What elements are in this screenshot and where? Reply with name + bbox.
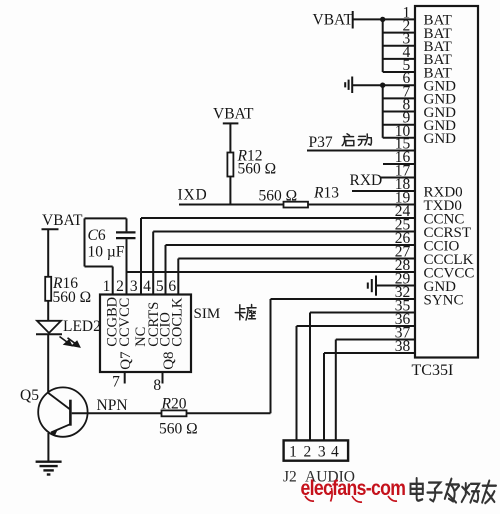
svg-text:NPN: NPN bbox=[97, 397, 128, 414]
wire SIM pin2 lead (cap to socket) bbox=[126, 239, 128, 294]
svg-text:4: 4 bbox=[331, 444, 339, 461]
resistor R20 bbox=[159, 396, 198, 438]
pin 18 RXD0 bbox=[352, 176, 463, 200]
pin 17 wire bbox=[381, 163, 415, 180]
svg-text:560 Ω: 560 Ω bbox=[259, 188, 298, 205]
svg-text:J2: J2 bbox=[283, 469, 297, 486]
wire VBAT to R16 bbox=[47, 229, 49, 276]
pin 1 BAT bbox=[353, 4, 452, 28]
wire pin35 to J2-2 bbox=[309, 313, 311, 441]
wire SIM pin5 drop bbox=[165, 245, 167, 295]
pin 3 BAT bbox=[383, 31, 452, 55]
pin 15 wire bbox=[307, 136, 415, 153]
watermark dianzifashaoyou (Chinese) bbox=[411, 478, 496, 503]
svg-text:3: 3 bbox=[130, 278, 138, 295]
pin 37 wire bbox=[336, 325, 415, 342]
power VBAT (left) bbox=[42, 212, 84, 229]
pin 26 CCIO bbox=[166, 230, 460, 254]
svg-text:VBAT: VBAT bbox=[313, 12, 354, 29]
svg-text:2: 2 bbox=[304, 444, 312, 461]
wire C6 top rail (to cap) bbox=[85, 217, 127, 219]
wire LED to Q5 collector bbox=[47, 334, 49, 393]
wire SIM pin1 branch bbox=[85, 218, 113, 294]
pin 28 CCVCC bbox=[127, 257, 475, 281]
svg-text:SIM: SIM bbox=[194, 306, 221, 322]
svg-text:IXD: IXD bbox=[178, 187, 208, 204]
svg-text:10 µF: 10 µF bbox=[88, 243, 125, 260]
svg-text:5: 5 bbox=[156, 278, 164, 295]
pin 10 GND bbox=[383, 123, 456, 147]
wire bus pins6-10 bbox=[382, 85, 384, 138]
svg-text:1: 1 bbox=[103, 278, 111, 295]
wire Q5 emitter bbox=[47, 433, 49, 462]
svg-text:R13: R13 bbox=[313, 185, 339, 202]
wire bus pins1-5 bbox=[382, 19, 384, 72]
svg-text:VBAT: VBAT bbox=[42, 212, 83, 229]
svg-text:SYNC: SYNC bbox=[424, 292, 464, 308]
svg-text:560 Ω: 560 Ω bbox=[159, 421, 198, 438]
wire SIM pin4 drop bbox=[152, 232, 154, 295]
pin 36 wire bbox=[297, 311, 416, 328]
svg-text:6: 6 bbox=[168, 278, 176, 295]
wire SIM pin3 drop bbox=[140, 218, 142, 295]
pin 6 GND bbox=[352, 70, 456, 94]
node junction pin6 bus bbox=[380, 83, 385, 88]
resistor R12 bbox=[227, 148, 276, 178]
svg-text:R20: R20 bbox=[161, 396, 187, 413]
SIM pin 7 stub bbox=[112, 372, 125, 391]
resistor R16 bbox=[45, 275, 91, 306]
connector J2 AUDIO bbox=[283, 440, 355, 485]
wire R12 bottom lead bbox=[229, 177, 231, 205]
svg-text:P37: P37 bbox=[309, 134, 333, 151]
wire pin37 to J2-4 bbox=[335, 340, 337, 441]
power VBAT (middle) bbox=[213, 106, 254, 124]
pin 8 GND bbox=[383, 97, 456, 121]
svg-text:3: 3 bbox=[318, 444, 326, 461]
pin 38 wire bbox=[324, 338, 415, 355]
svg-text:LED2: LED2 bbox=[63, 318, 101, 335]
resistor R13 bbox=[259, 185, 340, 208]
label qi-dong (Chinese) bbox=[342, 134, 371, 146]
svg-text:560 Ω: 560 Ω bbox=[238, 161, 277, 178]
IC U1 TC35I body bbox=[412, 6, 479, 379]
svg-text:VBAT: VBAT bbox=[213, 106, 254, 123]
wire Q5 base to R20 bbox=[72, 412, 162, 414]
ground G2 (pin 29) bbox=[368, 276, 376, 296]
pin 16 wire bbox=[383, 149, 415, 166]
svg-text:Q8: Q8 bbox=[161, 351, 177, 369]
node junction pin1 bus bbox=[380, 17, 385, 22]
svg-text:RXD: RXD bbox=[350, 172, 383, 189]
pin 19 TXD0 bbox=[179, 190, 462, 214]
pin 24 CCNC bbox=[141, 203, 464, 227]
wire pin38 to J2-3 bbox=[323, 353, 325, 440]
capacitor C6 bbox=[88, 227, 136, 260]
svg-text:TC35I: TC35I bbox=[412, 362, 454, 379]
svg-text:1: 1 bbox=[289, 444, 297, 461]
wire pin36 to J2-1 bbox=[296, 326, 298, 440]
connector J1 SIM socket body bbox=[100, 295, 220, 373]
svg-text:8: 8 bbox=[153, 377, 161, 394]
SIM pin 8 stub bbox=[153, 372, 162, 394]
wire R20 to pin32 SYNC bbox=[187, 299, 271, 413]
wire R16 to LED bbox=[47, 301, 49, 321]
svg-text:4: 4 bbox=[143, 278, 151, 295]
pin 7 GND bbox=[383, 83, 456, 107]
pin 32 SYNC bbox=[271, 284, 464, 308]
pin 25 CCRST bbox=[153, 217, 471, 241]
power VBAT (top, pins 1-5) bbox=[313, 11, 354, 29]
pin 4 BAT bbox=[383, 44, 452, 68]
wire SIM pin6 drop bbox=[177, 259, 179, 295]
pin 35 wire bbox=[310, 298, 415, 315]
svg-text:COCLK: COCLK bbox=[170, 297, 186, 347]
pin 29 GND bbox=[376, 271, 456, 295]
svg-text:CCVCC: CCVCC bbox=[117, 298, 133, 347]
svg-text:2: 2 bbox=[116, 278, 124, 295]
svg-text:560 Ω: 560 Ω bbox=[53, 289, 92, 306]
pin 5 BAT bbox=[383, 57, 452, 81]
svg-text:Q5: Q5 bbox=[20, 387, 39, 404]
svg-text:7: 7 bbox=[112, 374, 120, 391]
transistor Q5 NPN bbox=[20, 387, 128, 437]
watermark elecfans.com bbox=[301, 476, 406, 502]
pin 27 CCCLK bbox=[178, 244, 473, 268]
svg-text:C6: C6 bbox=[88, 227, 106, 244]
pin 9 GND bbox=[383, 110, 456, 134]
svg-text:GND: GND bbox=[424, 131, 457, 147]
wire R12 top lead bbox=[229, 123, 231, 152]
svg-text:38: 38 bbox=[395, 338, 411, 355]
ground G1 (pin 6) bbox=[345, 77, 352, 94]
label ka-zuo (SIM socket, Chinese) bbox=[235, 305, 256, 321]
net label P37 (start) pin15 bbox=[309, 134, 333, 151]
pin 2 BAT bbox=[383, 18, 452, 42]
LED LED2 bbox=[36, 318, 101, 347]
ground G3 (emitter) bbox=[36, 462, 62, 475]
svg-text:Q7: Q7 bbox=[118, 351, 134, 370]
